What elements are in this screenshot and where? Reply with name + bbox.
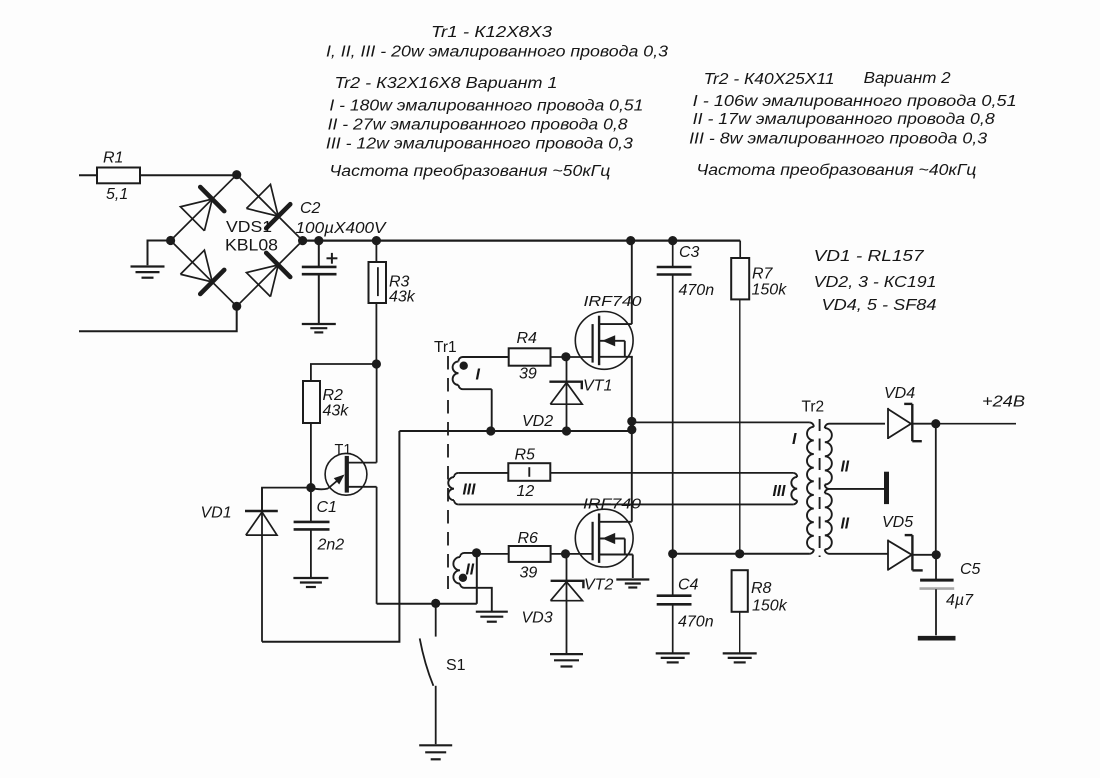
text Variant 2 bbox=[864, 70, 951, 87]
svg-text:C3: C3 bbox=[679, 244, 700, 261]
label R7 bbox=[752, 266, 774, 283]
wire Tr2 primary bottom bbox=[673, 553, 810, 555]
node bridge left bbox=[166, 236, 175, 245]
svg-text:470n: 470n bbox=[679, 282, 715, 299]
resistor R3 bbox=[369, 241, 387, 364]
mosfet VT1 IRF740 bbox=[575, 312, 633, 370]
svg-text:150k: 150k bbox=[752, 282, 788, 299]
label Tr2 bbox=[802, 399, 825, 416]
wire VT2 source to ground bbox=[632, 555, 634, 579]
svg-text:Tr2: Tr2 bbox=[802, 399, 825, 416]
wire R5 to Tr2-III top bbox=[550, 472, 793, 474]
winding I of Tr1 bbox=[453, 357, 509, 389]
node C3 top bbox=[668, 236, 677, 245]
svg-text:III: III bbox=[773, 483, 787, 500]
svg-text:VD5: VD5 bbox=[882, 514, 913, 531]
phase dot winding I bbox=[460, 362, 468, 370]
capacitor C1 bbox=[294, 488, 330, 578]
wire bridge side top-left bbox=[171, 175, 237, 241]
label S1 bbox=[446, 657, 466, 674]
node VD2 bottom bbox=[562, 426, 571, 435]
svg-text:470n: 470n bbox=[678, 614, 714, 631]
diode VD5 bbox=[888, 535, 936, 571]
node R4 right bbox=[561, 352, 570, 361]
svg-text:Вариант 2: Вариант 2 bbox=[864, 70, 951, 87]
text diode spec VD4-5 bbox=[822, 297, 937, 314]
wire oscillator bottom row bbox=[377, 603, 477, 605]
svg-text:I: I bbox=[792, 431, 797, 448]
svg-text:II: II bbox=[841, 516, 850, 533]
label C3 bbox=[679, 244, 700, 261]
node half-bridge a bbox=[627, 417, 636, 426]
wire +24V output bbox=[936, 423, 1016, 425]
capacitor C2 bbox=[302, 241, 337, 324]
wire T1 collector bbox=[376, 364, 378, 463]
label R6 value 39 bbox=[520, 565, 538, 582]
label Tr1 bbox=[434, 339, 457, 356]
svg-text:VT1: VT1 bbox=[583, 378, 612, 395]
label R8 value 150k bbox=[752, 598, 788, 615]
wire up to winding II node bbox=[476, 553, 478, 604]
node R3 bottom bbox=[372, 359, 381, 368]
svg-text:II - 27w эмалированного провод: II - 27w эмалированного провода 0,8 bbox=[328, 116, 628, 133]
svg-text:IRF740: IRF740 bbox=[583, 496, 642, 513]
diode VD1 bbox=[245, 488, 278, 642]
C5 negative terminal bar bbox=[918, 636, 956, 641]
winding III of Tr2 bbox=[791, 473, 797, 505]
ground (R8) bbox=[723, 653, 757, 662]
node T1 base bbox=[306, 483, 315, 492]
ground (S1) bbox=[419, 745, 452, 759]
svg-text:C5: C5 bbox=[960, 561, 981, 578]
resistor R2 bbox=[303, 381, 320, 488]
label +24B bbox=[982, 394, 1025, 411]
text Tr2 v1 winding I bbox=[329, 97, 643, 114]
svg-text:IRF740: IRF740 bbox=[584, 293, 643, 310]
svg-text:R2: R2 bbox=[323, 387, 344, 404]
capacitor C3 bbox=[657, 241, 692, 595]
svg-text:R4: R4 bbox=[517, 330, 538, 347]
label R5 value 12 bbox=[517, 483, 535, 500]
label R8 bbox=[751, 580, 772, 597]
label VD5 bbox=[882, 514, 913, 531]
svg-text:I, II, III - 20w эмалированног: I, II, III - 20w эмалированного провода … bbox=[326, 44, 668, 61]
transistor T1 bbox=[311, 453, 377, 495]
zener VD3 bbox=[551, 554, 584, 654]
svg-text:II: II bbox=[841, 459, 850, 476]
wire bridge side bottom-left bbox=[171, 241, 237, 307]
winding I of Tr2 (primary) bbox=[807, 422, 814, 553]
label C2 value 100uX400V bbox=[296, 220, 387, 237]
label R3 bbox=[389, 274, 410, 291]
wire bridge left to ground bbox=[148, 241, 171, 266]
ground (VD3) bbox=[550, 654, 583, 666]
node VT1 drain rail bbox=[626, 236, 635, 245]
svg-text:12: 12 bbox=[517, 483, 535, 500]
resistor R8 bbox=[732, 570, 748, 653]
mosfet VT2 IRF740 bbox=[575, 509, 633, 567]
resistor R1 bbox=[97, 168, 234, 184]
svg-text:R7: R7 bbox=[752, 266, 774, 283]
wire +310V rail bbox=[303, 240, 741, 242]
label R7 value 150k bbox=[752, 282, 788, 299]
wire Tr1-III top lead bbox=[458, 472, 508, 474]
svg-text:T1: T1 bbox=[335, 442, 352, 458]
text Tr2 v2 winding II bbox=[693, 111, 995, 128]
text Tr2 v2 winding III bbox=[689, 131, 987, 148]
resistor R5 bbox=[508, 463, 550, 481]
svg-text:C4: C4 bbox=[678, 577, 699, 594]
svg-text:R1: R1 bbox=[103, 150, 123, 167]
wire winding I to VD2 row bbox=[491, 389, 493, 431]
svg-text:VD3: VD3 bbox=[522, 610, 553, 627]
label R1 bbox=[103, 150, 123, 167]
wire to Tr2 primary top bbox=[632, 421, 810, 423]
C2 plus sign bbox=[327, 253, 338, 264]
svg-text:Частота преобразования ~40кГц: Частота преобразования ~40кГц bbox=[696, 162, 976, 179]
svg-text:100µX400V: 100µX400V bbox=[296, 220, 387, 237]
wire AC input top bbox=[79, 174, 97, 176]
svg-text:III: III bbox=[463, 482, 477, 499]
text Tr1 winding spec bbox=[326, 44, 668, 61]
wire VD2 row bbox=[399, 430, 631, 432]
text Tr2 v2 winding I bbox=[693, 93, 1017, 110]
label I (Tr1 winding) bbox=[476, 367, 481, 384]
svg-text:R6: R6 bbox=[518, 530, 539, 547]
svg-text:II - 17w эмалированного провод: II - 17w эмалированного провода 0,8 bbox=[693, 111, 995, 128]
capacitor C4 bbox=[657, 596, 692, 653]
label C4 bbox=[678, 577, 699, 594]
diode VD4 bbox=[888, 404, 936, 441]
text diode spec VD2-3 bbox=[814, 274, 937, 291]
label VT1 bbox=[583, 378, 612, 395]
node bridge right bbox=[298, 236, 307, 245]
label VD1 bbox=[201, 505, 232, 522]
wire output vertical bbox=[935, 424, 937, 555]
text Tr2 v1 winding II bbox=[328, 116, 628, 133]
node C2 tap bbox=[314, 236, 323, 245]
label T1 bbox=[335, 442, 352, 458]
ground (bridge left) bbox=[131, 267, 165, 278]
text frequency 40kHz bbox=[696, 162, 976, 179]
label R2 bbox=[323, 387, 344, 404]
node half-bridge b bbox=[627, 425, 636, 434]
svg-text:VD1 - RL157: VD1 - RL157 bbox=[814, 248, 926, 265]
label VD2 bbox=[522, 413, 553, 430]
svg-text:KBL08: KBL08 bbox=[225, 236, 278, 255]
label I (Tr2 primary) bbox=[792, 431, 797, 448]
svg-text:C1: C1 bbox=[317, 499, 337, 516]
text diode spec VD1 bbox=[814, 248, 926, 265]
text Tr2 v1 winding III bbox=[326, 135, 633, 152]
svg-text:R8: R8 bbox=[751, 580, 772, 597]
svg-text:VD4, 5 - SF84: VD4, 5 - SF84 bbox=[822, 297, 937, 314]
svg-text:I - 106w эмалированного провод: I - 106w эмалированного провода 0,51 bbox=[693, 93, 1017, 110]
svg-text:R5: R5 bbox=[515, 447, 536, 464]
node VD5 cathode bbox=[932, 550, 941, 559]
label R4 bbox=[517, 330, 538, 347]
svg-text:VD2: VD2 bbox=[522, 413, 553, 430]
node R8 top bbox=[735, 549, 744, 558]
diode VDS1-b (top to right) bbox=[246, 184, 290, 228]
zener VD2 bbox=[549, 357, 582, 431]
ground (VT2 source) bbox=[616, 580, 649, 588]
svg-text:39: 39 bbox=[519, 366, 537, 383]
label VD3 bbox=[522, 610, 553, 627]
winding III of Tr1 bbox=[448, 473, 458, 505]
capacitor C5 bbox=[920, 555, 955, 636]
svg-text:VDS1: VDS1 bbox=[226, 219, 272, 236]
ground (C2) bbox=[302, 324, 336, 332]
node C4 top bbox=[668, 549, 677, 558]
svg-text:III - 8w эмалированного провод: III - 8w эмалированного провода 0,3 bbox=[689, 131, 987, 148]
wire bridge side top-right bbox=[237, 175, 303, 241]
label II (Tr1 winding) bbox=[466, 562, 475, 579]
svg-text:43k: 43k bbox=[323, 403, 350, 420]
label R5 bbox=[515, 447, 536, 464]
label C5 value 4u7 bbox=[946, 592, 974, 609]
svg-text:Tr2 - К32Х16Х8 Вариант 1: Tr2 - К32Х16Х8 Вариант 1 bbox=[335, 75, 558, 92]
svg-text:Tr1: Tr1 bbox=[434, 339, 457, 356]
label IRF740 (VT1) bbox=[584, 293, 643, 310]
svg-text:C2: C2 bbox=[300, 200, 321, 217]
label C4 value 470n bbox=[678, 614, 714, 631]
svg-text:VD4: VD4 bbox=[884, 385, 915, 402]
resistor R7 bbox=[731, 241, 749, 554]
label C5 bbox=[960, 561, 981, 578]
svg-text:I - 180w эмалированного провод: I - 180w эмалированного провода 0,51 bbox=[329, 97, 643, 114]
node R6 right bbox=[561, 549, 570, 558]
winding II of Tr1 bbox=[453, 553, 491, 612]
svg-text:VD2, 3 - КС191: VD2, 3 - КС191 bbox=[814, 274, 937, 291]
transformer Tr1 core (dashed) bbox=[447, 356, 449, 589]
node winding II top bbox=[472, 548, 481, 557]
svg-text:39: 39 bbox=[520, 565, 538, 582]
wire bridge side bottom-right bbox=[237, 241, 303, 307]
svg-text:S1: S1 bbox=[446, 657, 466, 674]
node bridge bottom bbox=[232, 302, 241, 311]
diode VDS1-d (bottom to right) bbox=[246, 253, 290, 297]
svg-text:150k: 150k bbox=[752, 598, 788, 615]
wire VT1 source / VT2 drain bbox=[631, 357, 633, 522]
center tap terminal bar bbox=[884, 472, 889, 504]
text Tr2 variant2 title bbox=[704, 71, 835, 88]
svg-text:II: II bbox=[466, 562, 475, 579]
wire R3 bottom to R2 bbox=[311, 364, 377, 381]
svg-text:VD1: VD1 bbox=[201, 505, 232, 522]
text frequency 50kHz bbox=[329, 163, 610, 180]
label R3 value 43k bbox=[389, 289, 416, 306]
wire node to VD1 bbox=[262, 488, 311, 511]
svg-text:2n2: 2n2 bbox=[317, 537, 345, 554]
node bridge top bbox=[232, 170, 241, 179]
svg-text:5,1: 5,1 bbox=[106, 186, 128, 203]
svg-text:4µ7: 4µ7 bbox=[946, 592, 974, 609]
resistor R4 bbox=[509, 348, 593, 365]
label C1 value 2n2 bbox=[317, 537, 345, 554]
node R3 top bbox=[372, 236, 381, 245]
svg-text:Tr1 - К12Х8Х3: Tr1 - К12Х8Х3 bbox=[431, 24, 552, 41]
switch S1 bbox=[420, 604, 436, 744]
svg-text:I: I bbox=[476, 367, 481, 384]
transformer Tr2 core (dashed) bbox=[819, 419, 821, 557]
label KBL08 bbox=[225, 236, 278, 255]
svg-text:VT2: VT2 bbox=[584, 577, 613, 594]
label R6 bbox=[518, 530, 539, 547]
label R4 value 39 bbox=[519, 366, 537, 383]
label VD4 bbox=[884, 385, 915, 402]
wire Tr1-III bottom to Tr2-III bottom bbox=[458, 503, 793, 505]
label IRF740 (VT2) bbox=[583, 496, 642, 513]
ground (C4) bbox=[656, 653, 690, 662]
node winding I bottom bbox=[486, 426, 495, 435]
diode VDS1-a (left to top) bbox=[180, 187, 224, 231]
winding II of Tr2 (secondary, center-tapped) bbox=[825, 424, 888, 554]
svg-text:III - 12w эмалированного прово: III - 12w эмалированного провода 0,3 bbox=[326, 135, 633, 152]
label C2 bbox=[300, 200, 321, 217]
label III (Tr1 winding) bbox=[463, 482, 477, 499]
svg-text:Tr2 - К40Х25Х11: Tr2 - К40Х25Х11 bbox=[704, 71, 835, 88]
node VD4 cathode bbox=[931, 419, 940, 428]
text Tr1 winding spec title bbox=[431, 24, 552, 41]
label R1 value 5,1 bbox=[106, 186, 128, 203]
wire VD1 bottom loop bbox=[262, 431, 399, 642]
wire T1 emitter down bbox=[376, 487, 378, 604]
svg-text:Частота преобразования ~50кГц: Частота преобразования ~50кГц bbox=[329, 163, 610, 180]
label III (Tr2 winding) bbox=[773, 483, 787, 500]
label VT2 bbox=[584, 577, 613, 594]
ground (C1) bbox=[293, 578, 328, 587]
phase dot winding II bbox=[459, 574, 467, 582]
label II (Tr2 top) bbox=[841, 459, 850, 476]
text Tr2 variant1 title bbox=[335, 75, 558, 92]
label C1 bbox=[317, 499, 337, 516]
resistor R6 bbox=[477, 546, 593, 562]
wire VT1 drain bbox=[631, 241, 633, 325]
svg-text:43k: 43k bbox=[389, 289, 416, 306]
ground (winding II) bbox=[476, 612, 508, 622]
wire AC input bottom bbox=[79, 306, 237, 331]
label C3 value 470n bbox=[679, 282, 715, 299]
svg-text:+24В: +24В bbox=[982, 394, 1025, 411]
diode VDS1-c (left to bottom) bbox=[180, 250, 224, 294]
node S1 tap bbox=[431, 599, 440, 608]
label VDS1 bbox=[226, 219, 272, 236]
label R2 value 43k bbox=[323, 403, 350, 420]
label II (Tr2 bottom) bbox=[841, 516, 850, 533]
